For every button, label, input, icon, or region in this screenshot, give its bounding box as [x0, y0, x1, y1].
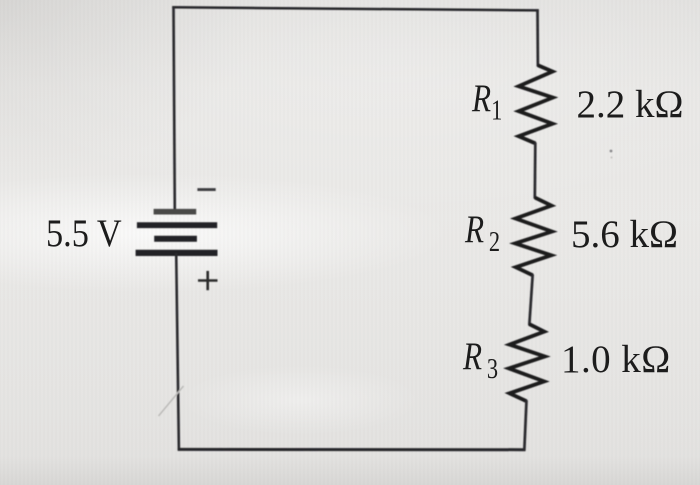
wire between R1 and R2	[533, 143, 536, 199]
pencil scratch mark bottom-left	[159, 386, 184, 416]
voltage source label 5.5 V	[46, 214, 122, 253]
value label 5.6 k ohm	[571, 215, 678, 254]
resistor label R3	[463, 337, 498, 384]
resistor label R1	[472, 79, 502, 126]
battery V1 plate negative short (top)	[154, 209, 197, 215]
battery V1 plate short inner	[154, 236, 197, 242]
wire left lower (battery positive plate down to bottom-left corner)	[176, 253, 179, 451]
plus terminal sign	[198, 271, 218, 290]
minus terminal sign	[197, 188, 215, 191]
battery V1 plate long upper	[137, 222, 217, 228]
wire bottom (bottom-left corner to bottom-right corner)	[178, 448, 526, 451]
resistor label R2	[465, 210, 500, 257]
wire left upper (top-left corner down to battery negative plate)	[174, 6, 175, 210]
value label 1.0 k ohm	[561, 340, 671, 379]
wire right upper (top-right corner down to resistor R1)	[536, 9, 539, 66]
battery V1 plate positive long (bottom)	[136, 250, 218, 256]
wire between R2 and R3	[529, 274, 532, 325]
value label 2.2 k ohm	[577, 85, 684, 124]
resistor R2 zigzag	[515, 198, 552, 276]
faint speck below	[611, 157, 613, 159]
paper speck under 2.2 k ohm label	[610, 150, 613, 153]
resistor R3 zigzag	[509, 324, 545, 401]
wire between R3 and bottom-right corner	[524, 400, 526, 451]
resistor R1 zigzag	[519, 65, 553, 143]
wire top (top-left corner to top-right corner)	[172, 7, 538, 10]
